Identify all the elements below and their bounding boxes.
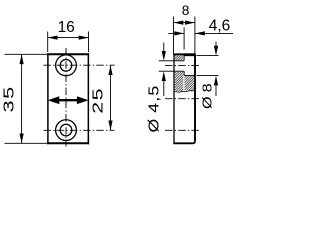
hatching left column upper (175, 55, 184, 60)
counterbore step line (183, 56, 185, 61)
hatching left column lower (175, 72, 184, 92)
bottom hole centerline (extension for 25) (44, 129, 115, 131)
svg-text:25: 25 (89, 87, 106, 114)
dimension 8 line (174, 21, 195, 25)
svg-text:35: 35 (0, 85, 16, 112)
vertical centerline (65, 48, 67, 147)
dimension Ø8 extension lines (197, 55, 219, 57)
dimension Ø8 upper arrow (214, 42, 218, 56)
double arrow symbol (48, 96, 89, 104)
svg-text:8: 8 (182, 3, 190, 18)
dimension 35 extension lines (5, 53, 48, 55)
hatching right column below counterbore (185, 76, 195, 91)
dimension 16 extension lines (47, 32, 49, 53)
counterbore top edge Ø8 (184, 55, 195, 57)
dimension 25 line (108, 65, 112, 130)
break line (wavy) (174, 90, 195, 92)
dimension Ø4,5 lower arrow (162, 71, 166, 96)
top hole inner circle Ø4,5 (60, 60, 72, 72)
sliver above counterbore (184, 53, 195, 56)
dimension 8 extension lines (173, 17, 175, 54)
dimension 16 line (48, 36, 89, 40)
bottom hole inner circle Ø4,5 (60, 124, 72, 136)
dimension Ø4,5 extension lines (159, 60, 174, 62)
side view bottom hole centerline (165, 129, 200, 131)
side view outline (173, 54, 196, 143)
dimension Ø8 lower arrow (214, 76, 218, 96)
side view mid centerline (165, 98, 200, 100)
svg-text:16: 16 (58, 19, 75, 36)
top hole outer circle Ø8 (56, 55, 77, 76)
counterbore bottom edge Ø8 (184, 75, 195, 77)
dimension 4,6 left arrow (168, 31, 184, 35)
svg-text:Ø 4,5: Ø 4,5 (146, 85, 162, 133)
svg-text:4,6: 4,6 (209, 18, 231, 35)
dimension Ø4,5 upper arrow (162, 43, 166, 61)
side view top hole centerline (165, 64, 200, 66)
bottom hole outer circle Ø8 (56, 120, 77, 141)
dimension 35 line (20, 54, 24, 143)
dimension 4,6 step extension line (183, 27, 185, 49)
top hole centerline (extension for 25) (44, 64, 115, 66)
svg-text:Ø 8: Ø 8 (201, 82, 215, 109)
plate outline (47, 53, 89, 144)
dimension 4,6 right arrow (195, 31, 233, 35)
hole edge lines in section (174, 60, 184, 62)
